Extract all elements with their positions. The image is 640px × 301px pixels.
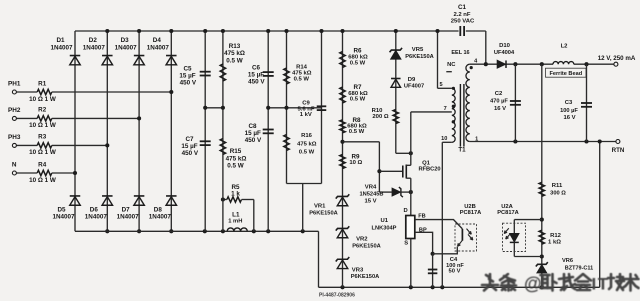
svg-text:D: D [404,208,408,214]
svg-text:10 Ω 1 W: 10 Ω 1 W [29,122,56,129]
svg-text:FB: FB [418,213,425,219]
svg-text:VR2: VR2 [356,236,368,242]
svg-text:1N4007: 1N4007 [52,214,75,221]
svg-text:VR3: VR3 [352,268,364,274]
svg-text:L2: L2 [561,43,569,49]
svg-text:P6KE150A: P6KE150A [309,210,337,216]
svg-text:C3: C3 [565,100,573,106]
svg-text:475 kΩ: 475 kΩ [297,141,317,147]
svg-text:C7: C7 [185,136,194,143]
svg-text:1 kV: 1 kV [300,112,312,118]
svg-text:D4: D4 [153,37,162,44]
svg-text:RTN: RTN [612,147,625,154]
svg-text:PI-4487-082906: PI-4487-082906 [319,293,355,299]
svg-text:U1: U1 [381,218,389,224]
svg-text:10 Ω 1 W: 10 Ω 1 W [29,149,56,156]
svg-text:10 Ω: 10 Ω [349,160,362,166]
svg-text:0.5 W: 0.5 W [349,129,365,135]
svg-text:NC: NC [447,62,456,68]
svg-text:S: S [404,241,408,247]
svg-text:0.5 W: 0.5 W [227,162,244,169]
svg-text:450 V: 450 V [182,150,199,157]
svg-text:450 V: 450 V [180,80,197,87]
svg-text:250 VAC: 250 VAC [451,18,475,24]
svg-text:R2: R2 [38,107,47,114]
svg-text:475 kΩ: 475 kΩ [224,50,245,57]
svg-text:D2: D2 [89,37,98,44]
svg-text:PH1: PH1 [8,80,21,87]
svg-text:300 Ω: 300 Ω [550,191,566,197]
svg-text:N: N [12,161,17,168]
svg-text:D6: D6 [90,206,99,213]
svg-text:R12: R12 [550,233,562,239]
svg-text:450 V: 450 V [245,137,262,144]
svg-text:P6KE150A: P6KE150A [405,54,433,60]
svg-text:5: 5 [439,82,442,88]
svg-text:0.5 W: 0.5 W [294,76,310,82]
svg-text:R15: R15 [230,148,242,155]
svg-text:1N4007: 1N4007 [50,44,73,51]
svg-text:0.5 W: 0.5 W [350,60,366,66]
svg-text:50 V: 50 V [449,269,461,275]
svg-text:1N4007: 1N4007 [83,44,106,51]
svg-text:UF4007: UF4007 [404,84,424,90]
svg-text:1N4007: 1N4007 [149,214,172,221]
svg-text:R4: R4 [38,161,47,168]
svg-text:R1: R1 [38,80,47,87]
svg-text:R16: R16 [301,133,313,139]
svg-text:D8: D8 [154,206,163,213]
svg-text:12 V, 250 mA: 12 V, 250 mA [598,55,636,62]
svg-text:10: 10 [441,136,447,142]
svg-text:LNK304P: LNK304P [372,225,397,231]
svg-text:R6: R6 [353,48,362,55]
svg-text:VR5: VR5 [412,47,424,53]
svg-text:1N4007: 1N4007 [117,214,140,221]
svg-text:1 kΩ: 1 kΩ [548,239,561,245]
svg-text:2.2 nF: 2.2 nF [453,12,470,18]
svg-text:@: @ [524,274,542,294]
svg-text:D9: D9 [408,77,416,83]
svg-text:D5: D5 [57,206,66,213]
svg-text:7: 7 [444,106,447,112]
svg-text:10 Ω 1 W: 10 Ω 1 W [29,177,56,184]
svg-text:D3: D3 [121,37,130,44]
svg-text:C8: C8 [248,123,257,130]
svg-text:D1: D1 [56,37,65,44]
svg-text:200 Ω: 200 Ω [372,114,388,120]
svg-text:15 µF: 15 µF [248,72,264,79]
svg-text:450 V: 450 V [248,79,265,86]
svg-text:EEL 16: EEL 16 [451,50,469,56]
svg-text:1N5245B: 1N5245B [359,192,383,198]
svg-text:1N4007: 1N4007 [147,44,170,51]
svg-text:C2: C2 [495,91,503,97]
svg-text:VR4: VR4 [365,185,377,191]
svg-text:15 µF: 15 µF [181,143,197,150]
svg-text:RFBC20: RFBC20 [418,167,440,173]
svg-text:PH3: PH3 [8,134,21,141]
svg-text:470 µF: 470 µF [490,99,508,105]
svg-text:1N4007: 1N4007 [85,214,108,221]
svg-text:0.5 W: 0.5 W [226,57,243,64]
svg-text:R3: R3 [38,134,47,141]
svg-text:R11: R11 [552,183,563,189]
svg-text:100 µF: 100 µF [560,108,578,114]
svg-text:0.5 W: 0.5 W [299,149,315,155]
svg-text:10 Ω 1 W: 10 Ω 1 W [29,96,56,103]
svg-text:15 V: 15 V [364,198,376,204]
svg-text:C5: C5 [183,66,192,73]
svg-text:T1: T1 [458,146,466,153]
svg-text:VR1: VR1 [314,204,326,210]
svg-text:R13: R13 [229,43,241,50]
svg-text:UF4004: UF4004 [494,50,515,56]
svg-text:D10: D10 [499,43,511,49]
svg-text:PH2: PH2 [8,107,21,114]
svg-text:1 k: 1 k [231,190,240,197]
svg-text:475 kΩ: 475 kΩ [226,155,247,162]
svg-text:C1: C1 [458,4,467,11]
svg-text:1 mH: 1 mH [228,218,242,224]
svg-text:1N4007: 1N4007 [115,44,138,51]
svg-text:Ferrite Bead: Ferrite Bead [549,71,582,77]
svg-text:0.5 W: 0.5 W [350,97,366,103]
svg-text:PC817A: PC817A [497,210,519,216]
svg-text:VR6: VR6 [562,258,573,264]
svg-text:15 µF: 15 µF [245,130,261,137]
svg-text:PC817A: PC817A [460,210,482,216]
svg-text:P6KE150A: P6KE150A [352,243,380,249]
svg-text:R14: R14 [296,64,308,70]
svg-text:D7: D7 [122,206,131,213]
svg-text:P6KE150A: P6KE150A [351,274,379,280]
svg-text:C6: C6 [252,65,261,72]
svg-text:IT: IT [592,275,610,294]
svg-text:15 µF: 15 µF [179,73,195,80]
svg-text:16 V: 16 V [563,115,575,121]
svg-text:16 V: 16 V [494,106,506,112]
svg-text:BZT79-C11: BZT79-C11 [565,266,593,272]
